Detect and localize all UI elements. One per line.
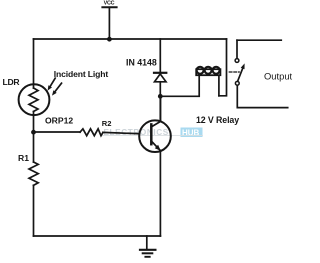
svg-text:12 V Relay: 12 V Relay [196, 115, 239, 125]
svg-text:R2: R2 [102, 119, 112, 128]
svg-text:R1: R1 [18, 153, 29, 163]
svg-text:Output: Output [264, 70, 293, 81]
svg-text:ORP12: ORP12 [45, 115, 73, 125]
svg-text:Incident Light: Incident Light [54, 69, 109, 79]
svg-text:HUB: HUB [182, 128, 200, 137]
svg-text:IN 4148: IN 4148 [126, 57, 157, 67]
svg-text:VCC: VCC [104, 1, 115, 7]
svg-text:LDR: LDR [3, 77, 21, 87]
